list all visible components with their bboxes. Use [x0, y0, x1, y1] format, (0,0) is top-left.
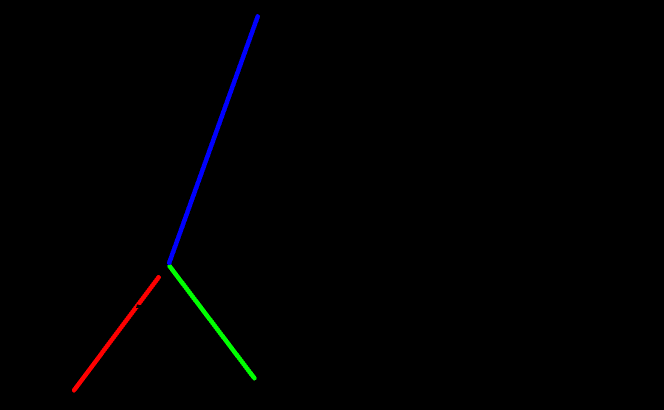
red axis line (X) — [74, 277, 159, 390]
green axis line (Y) — [170, 266, 255, 378]
red line seam notch — [136, 305, 141, 309]
blue axis line (Z) — [169, 17, 258, 263]
